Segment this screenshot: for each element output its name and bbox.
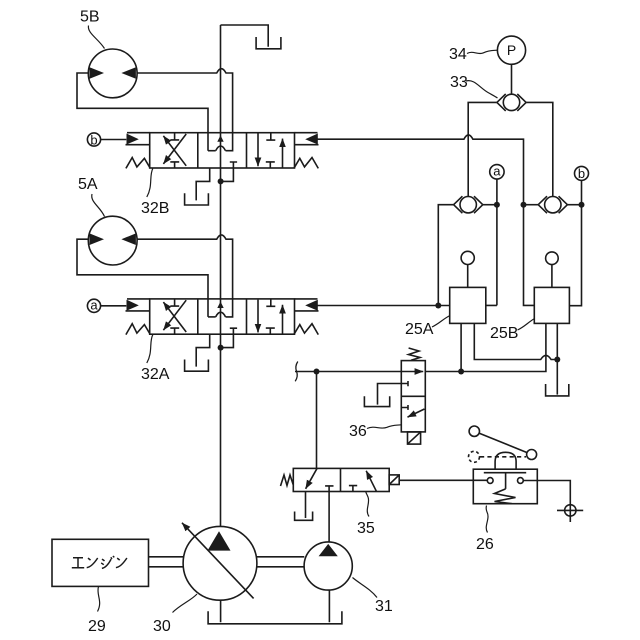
junction 32B drain	[218, 178, 224, 184]
tank symbol top	[256, 37, 281, 49]
pump 30 variable arrow	[182, 523, 254, 599]
wire 25B P port to supply line	[425, 323, 546, 371]
label 36	[349, 423, 367, 440]
junction supply / valve 35 branch	[314, 369, 320, 375]
valve 32A centre box drain port	[221, 328, 238, 347]
switch 26 contacts	[487, 478, 493, 484]
svg-text:b: b	[90, 132, 97, 147]
valve 35 left box blocked port	[325, 486, 333, 492]
junction supply / 25A	[458, 369, 464, 375]
switch 26 lever	[469, 426, 479, 436]
svg-text:5B: 5B	[80, 9, 100, 26]
label 5B	[80, 9, 100, 26]
pilot device 25A	[450, 287, 486, 323]
wire pilot b line 32B to 25B (hop)	[318, 135, 535, 306]
svg-text:5A: 5A	[78, 176, 98, 193]
wire shuttle 25B right	[567, 204, 581, 206]
wire shuttle 25A left to pilot a line	[438, 205, 453, 306]
svg-text:32A: 32A	[141, 366, 170, 383]
label 25A	[405, 321, 434, 338]
svg-text:b: b	[578, 166, 585, 181]
wire motor 5A left loop to valve 32A port	[77, 239, 208, 317]
label 32A	[141, 366, 170, 383]
switch 26 bridge and spring	[484, 473, 526, 489]
wire 32B drain to tank	[196, 168, 210, 200]
valve 36 top box flow arrow	[401, 371, 423, 373]
svg-text:29: 29	[88, 618, 106, 635]
tank symbol valve 35	[295, 512, 313, 521]
wire shuttle 33 left to shuttle 25A	[468, 102, 497, 196]
svg-text:32B: 32B	[141, 200, 169, 217]
junction 32A drain	[218, 345, 224, 351]
switch 26 box	[473, 469, 537, 504]
wire motor 5A right to valve 32A port (hop over main line)	[137, 235, 233, 317]
svg-text:33: 33	[450, 74, 468, 91]
valve 35 right box arrow	[366, 471, 376, 492]
valve 35 right box blocked port	[349, 486, 357, 492]
valve 35 tank line	[305, 492, 307, 519]
wire pump suctions	[221, 590, 330, 622]
valve 32B pilot cap right	[295, 133, 319, 145]
svg-text:a: a	[493, 164, 501, 179]
wire 25B T port to tank	[556, 323, 558, 394]
tank symbol below 32A	[185, 360, 209, 372]
tank symbol bottom	[208, 611, 342, 624]
shaft pump 30 to pump 31	[257, 557, 304, 567]
valve 32B right box arrows	[257, 133, 259, 166]
svg-text:25B: 25B	[490, 325, 518, 342]
wire shuttle 25A right	[483, 204, 497, 206]
wire node a to box 25A right port	[486, 179, 497, 305]
label 5A	[78, 176, 98, 193]
wire tank top feed	[221, 25, 269, 47]
valve 35 solenoid	[389, 475, 399, 485]
motor 5A	[88, 216, 137, 265]
valve 32B centre box check valve	[216, 146, 226, 151]
shuttle valve 33	[503, 94, 519, 110]
node a left	[87, 299, 100, 312]
shaft engine to pump 30	[149, 557, 184, 567]
label 33	[450, 74, 468, 91]
valve 32A body	[150, 299, 295, 334]
switch 26 plunger dome	[495, 452, 516, 469]
valve 32B centre box drain port	[221, 162, 238, 181]
engine box 29	[52, 539, 149, 586]
valve 36 top box blocked port	[401, 381, 408, 386]
motor 5B	[88, 49, 137, 98]
tank symbol valve 36	[364, 396, 389, 406]
wire pilot a line 32A to box 25A	[318, 305, 450, 307]
wire 25A P port to supply line	[460, 323, 462, 371]
wire solenoid 35 to switch 26	[399, 479, 487, 481]
valve 36 solenoid	[408, 432, 421, 444]
valve 32A pilot cap left	[126, 299, 150, 311]
wire motor 5B right to valve 32B port (hop over main line)	[137, 69, 233, 151]
valve 35 spring	[281, 475, 294, 486]
valve 32A pilot cap right	[295, 299, 319, 311]
wire motor 5B left loop to valve 32B port	[77, 73, 208, 151]
wire supply branch to valve 35	[316, 372, 318, 469]
svg-text:35: 35	[357, 520, 375, 537]
wire seat left stub 32A	[208, 316, 216, 318]
junction drain 25A/25B	[554, 357, 560, 363]
wire switch 26 to earth	[523, 481, 570, 505]
wire node b to box 25B right port	[570, 180, 582, 305]
svg-text:34: 34	[449, 46, 467, 63]
pump 31	[304, 542, 352, 590]
wire shuttle 33 right to shuttle 25B	[526, 102, 553, 196]
wire 25A T port to tank (hop)	[474, 323, 557, 359]
label 25B	[490, 325, 518, 342]
pilot device 25B	[534, 287, 569, 323]
valve 35 body	[293, 468, 389, 491]
earth symbol	[565, 505, 576, 516]
label 35	[357, 520, 375, 537]
svg-text:26: 26	[476, 536, 494, 553]
junction pilot b / shuttle 25B	[521, 202, 527, 208]
valve 36 drain to tank	[378, 384, 402, 405]
valve 32B left box crossed arrows	[163, 136, 186, 166]
wire gauge to shuttle 33	[511, 64, 513, 94]
valve 36 bottom box blocked port	[401, 405, 408, 410]
valve 32A right box arrows	[257, 300, 259, 333]
gauge P 34	[497, 36, 525, 64]
wire 32A drain to tank	[196, 334, 210, 366]
node b right	[575, 166, 589, 180]
svg-text:36: 36	[349, 423, 367, 440]
junction pilot a	[435, 303, 441, 309]
junction a / shuttle 25A	[494, 202, 500, 208]
wire supply line left segment with break	[295, 371, 401, 373]
label 30	[153, 618, 171, 635]
tank symbol below 32B	[185, 193, 209, 205]
valve 36 body	[401, 361, 425, 432]
wire seat left stub 32B	[208, 150, 216, 152]
svg-text:a: a	[90, 298, 98, 313]
junction b / shuttle 25B	[579, 202, 585, 208]
valve 32A spring left	[126, 324, 150, 335]
valve 32B spring right	[294, 158, 318, 169]
node b left	[87, 133, 100, 146]
label 31	[375, 598, 393, 615]
node a right	[490, 165, 504, 179]
pump 30	[183, 526, 257, 600]
tank symbol right	[546, 384, 569, 396]
valve 32B spring left	[126, 158, 150, 169]
valve 32B body	[150, 133, 295, 168]
valve 32A left box crossed arrows	[163, 302, 186, 332]
wire shuttle 25B left	[524, 204, 539, 206]
wire main pump line (tank top to pump 30)	[220, 25, 222, 526]
label 32B	[141, 200, 169, 217]
valve 36 bottom box arrow	[408, 409, 425, 417]
shuttle valve 25A	[460, 197, 476, 213]
valve 35 left box arrow	[306, 469, 317, 489]
label 26	[476, 536, 494, 553]
valve 36 spring	[409, 348, 421, 360]
valve 32A centre box check valve	[216, 312, 226, 317]
svg-text:25A: 25A	[405, 321, 434, 338]
label 29	[88, 618, 106, 635]
svg-text:30: 30	[153, 618, 171, 635]
svg-text:P: P	[507, 42, 516, 58]
shuttle valve 25B	[545, 197, 561, 213]
wire valve 35 to pump 31	[328, 492, 330, 543]
svg-text:31: 31	[375, 598, 393, 615]
switch 26 lever pressed position (dashed)	[469, 451, 480, 462]
valve 32A spring right	[294, 324, 318, 335]
valve 32B pilot cap left	[126, 133, 150, 145]
label 34	[449, 46, 467, 63]
